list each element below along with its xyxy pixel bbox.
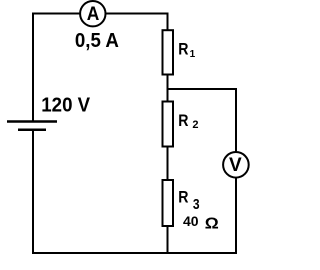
svg-text:A: A	[87, 4, 100, 25]
ammeter A body	[80, 1, 105, 26]
svg-text:1: 1	[190, 49, 196, 60]
wire voltmeter branch vertical upper	[235, 88, 237, 152]
wire left vertical upper (battery top lead)	[32, 13, 34, 121]
node junction to voltmeter branch	[167, 88, 238, 90]
wire between R1 and R2	[167, 75, 169, 102]
svg-text:120 V: 120 V	[41, 94, 90, 116]
wire below R3 to bottom	[167, 226, 169, 254]
svg-text:R: R	[178, 189, 188, 207]
svg-text:2: 2	[192, 119, 198, 131]
battery 120 V short plate	[18, 128, 46, 131]
voltmeter V body	[223, 152, 249, 178]
resistor R2 body	[163, 102, 174, 147]
resistor R3 body	[163, 180, 174, 226]
wire right branch: top corner down to R1	[167, 13, 169, 30]
svg-text:R: R	[178, 112, 188, 130]
svg-text:40: 40	[183, 213, 199, 229]
wire left vertical lower (battery bottom lead)	[32, 130, 34, 254]
battery 120 V long plate	[7, 120, 57, 123]
wire voltmeter branch vertical lower	[235, 178, 237, 254]
wire bottom horizontal	[32, 252, 237, 254]
svg-text:V: V	[229, 155, 242, 176]
wire top horizontal from battery branch to resistor branch	[33, 14, 168, 15]
svg-text:R: R	[178, 41, 188, 59]
svg-text:3: 3	[193, 196, 200, 213]
resistor R1 body	[163, 30, 174, 74]
svg-text:0,5 A: 0,5 A	[75, 30, 119, 52]
svg-text:Ω: Ω	[205, 215, 219, 232]
wire between R2 and R3	[167, 147, 169, 181]
